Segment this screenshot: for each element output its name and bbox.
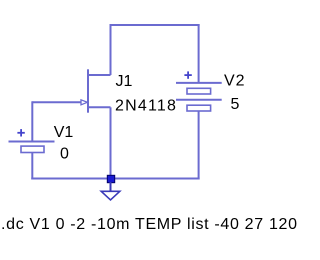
junction node	[107, 175, 114, 182]
svg-text:5: 5	[231, 96, 240, 113]
svg-text:2N4118: 2N4118	[115, 98, 177, 115]
voltage source V2	[176, 71, 222, 111]
wire drain vertical	[110, 24, 112, 75]
wire V2 bottom terminal	[198, 111, 200, 180]
wire V1 bottom stub	[31, 153, 33, 180]
wire gate horizontal	[32, 101, 81, 103]
wire left vertical to V1	[31, 101, 33, 141]
wire V2 top terminal	[198, 24, 200, 83]
voltage source V1	[9, 129, 55, 152]
svg-text:V2: V2	[224, 73, 246, 90]
ground	[101, 182, 120, 200]
svg-text:J1: J1	[116, 73, 133, 90]
svg-text:0: 0	[60, 146, 69, 163]
wire bottom rail	[31, 178, 199, 180]
transistor J1	[81, 69, 111, 112]
wire top from J1 drain to V2 plus	[110, 24, 200, 26]
svg-text:V1: V1	[54, 124, 74, 141]
svg-text:.dc V1 0 -2 -10m TEMP list -40: .dc V1 0 -2 -10m TEMP list -40 27 120	[1, 216, 298, 233]
wire source vertical	[110, 107, 112, 179]
